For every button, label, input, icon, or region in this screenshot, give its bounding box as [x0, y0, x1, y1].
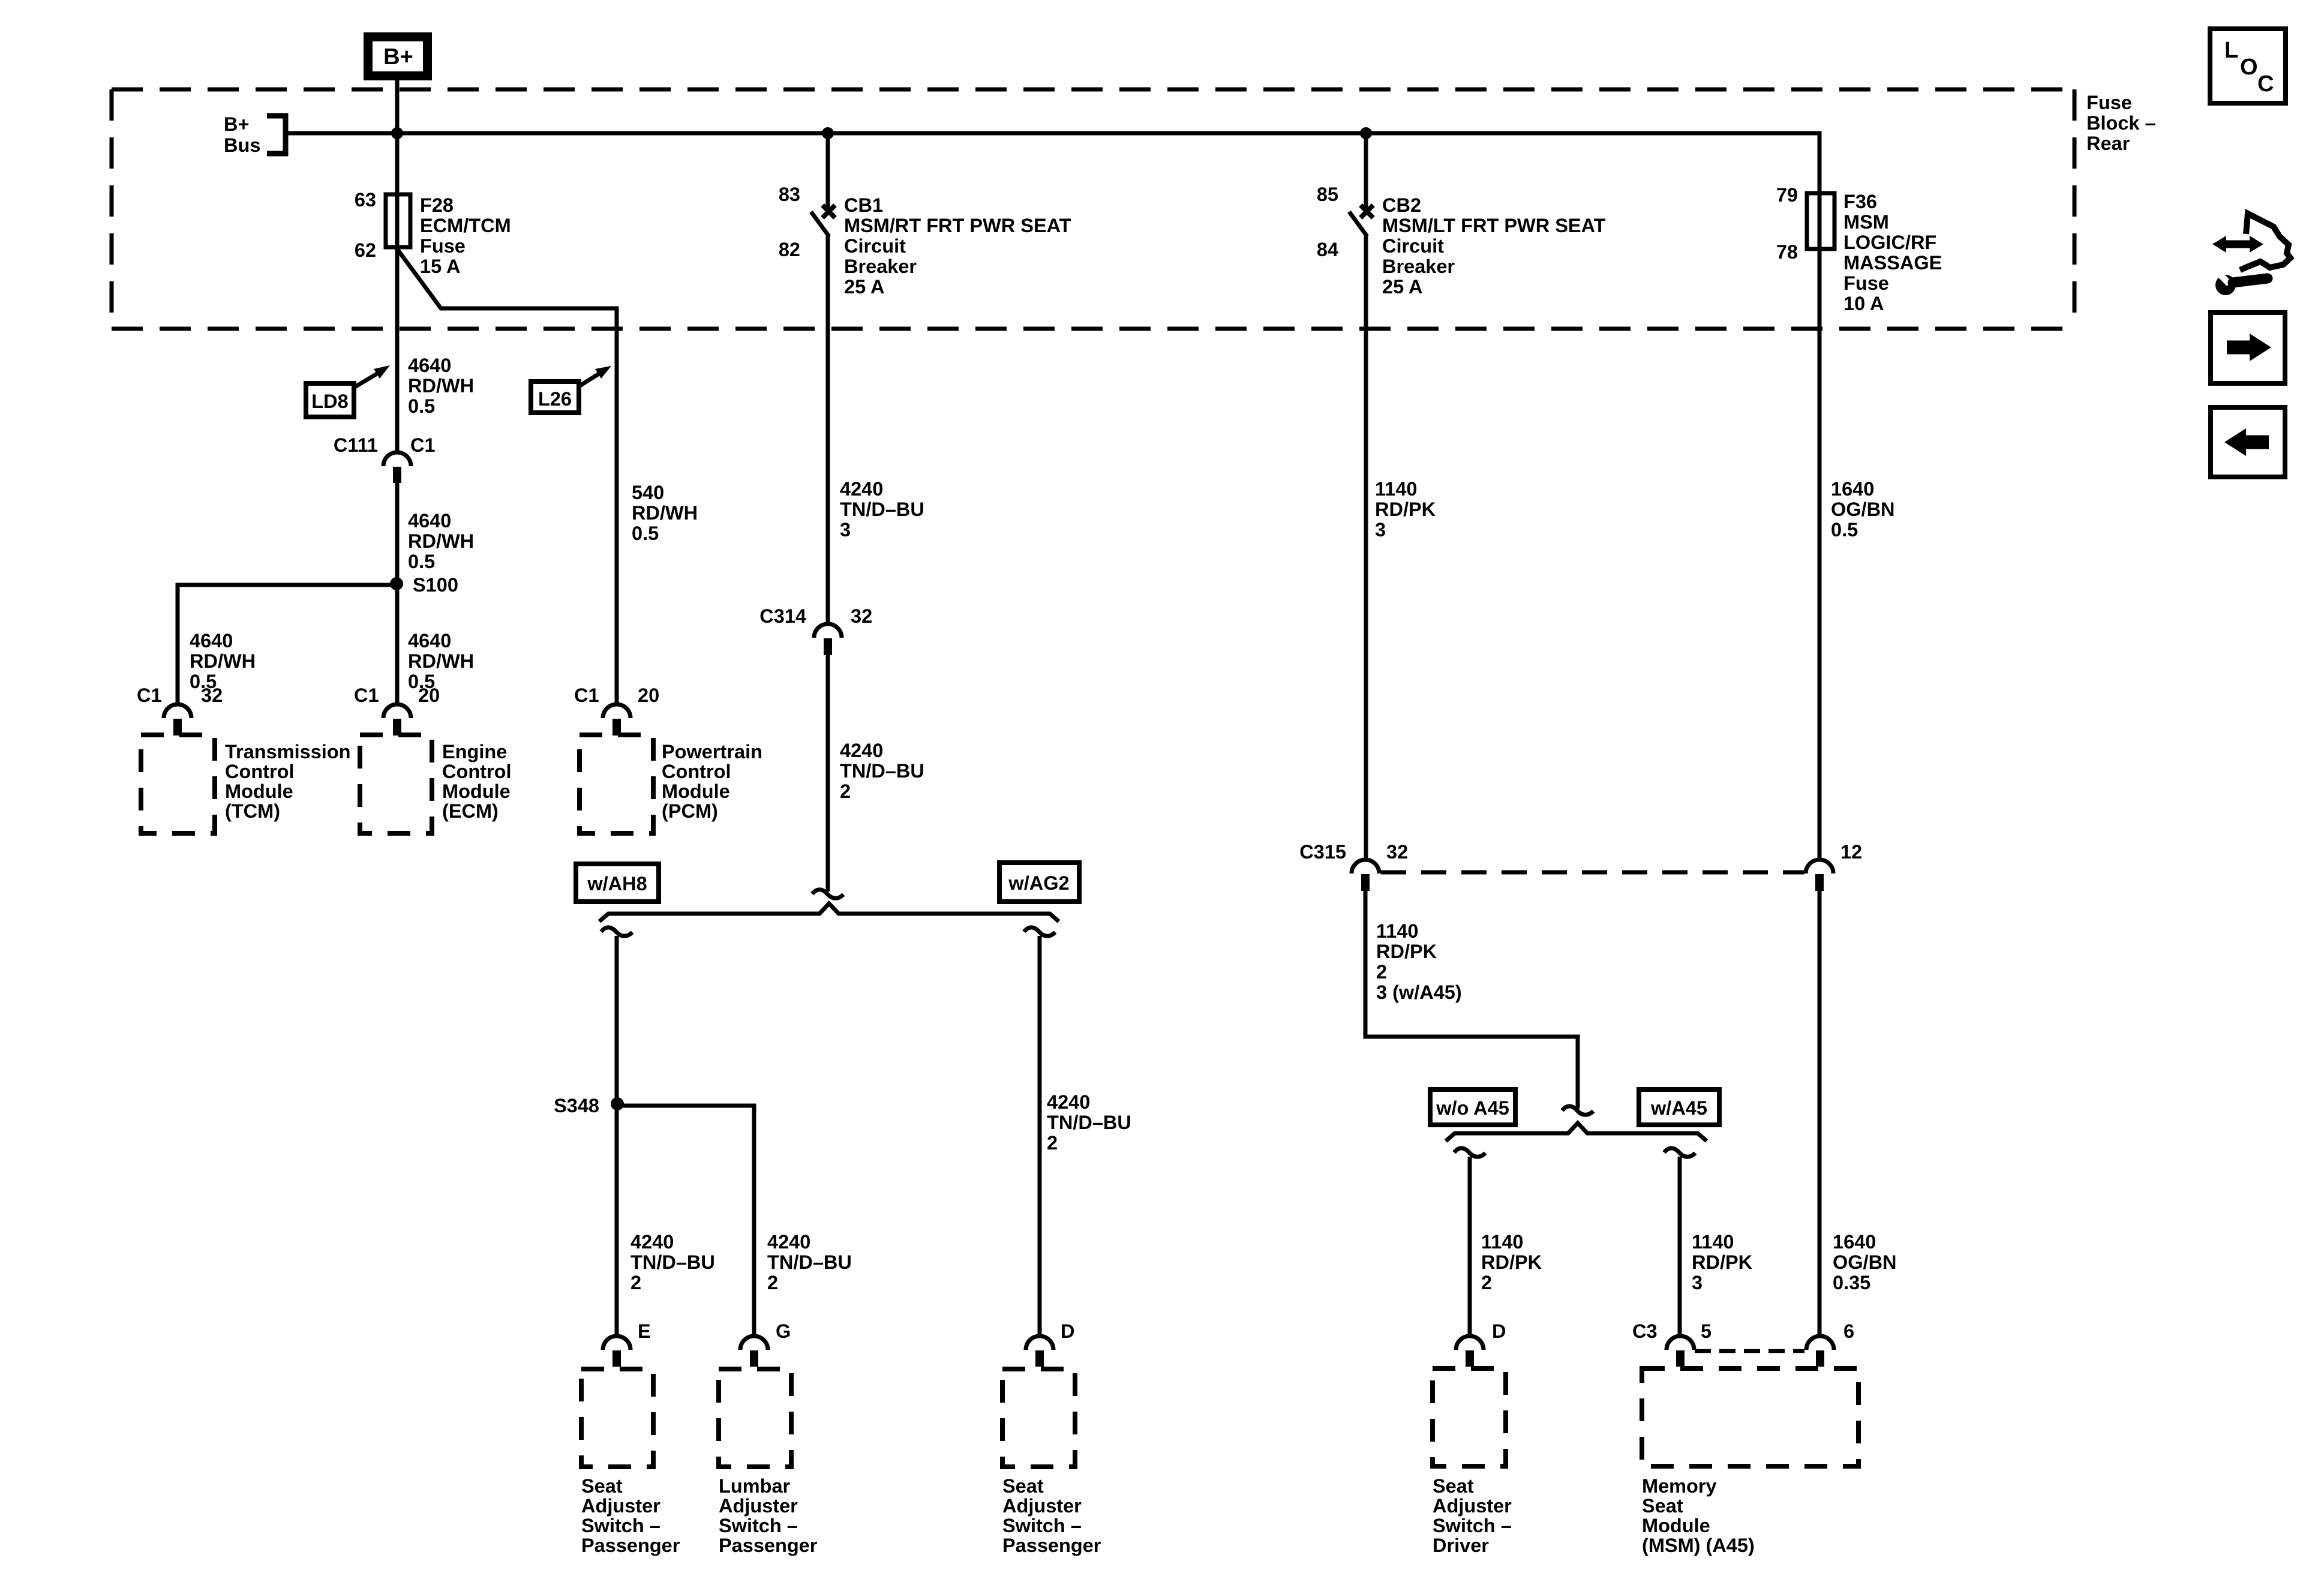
wire B+ bus	[286, 133, 1819, 193]
svg-text:MSM: MSM	[1843, 211, 1889, 233]
svg-text:2: 2	[767, 1272, 778, 1293]
svg-text:4240: 4240	[767, 1231, 810, 1253]
svg-text:Passenger: Passenger	[1002, 1535, 1101, 1556]
label Fuse Block - Rear	[2086, 92, 2156, 154]
svg-text:83: 83	[779, 184, 800, 205]
svg-text:Rear: Rear	[2086, 133, 2130, 154]
svg-text:20: 20	[418, 685, 440, 706]
svg-text:RD/WH: RD/WH	[632, 502, 698, 524]
svg-text:Seat: Seat	[1642, 1495, 1683, 1517]
wire label 4640 right	[408, 630, 474, 692]
svg-text:1140: 1140	[1692, 1231, 1734, 1253]
svg-text:1140: 1140	[1481, 1231, 1524, 1253]
w/AH8 option box	[576, 864, 659, 902]
split2 hook center	[1562, 1106, 1593, 1115]
svg-text:B+: B+	[224, 113, 249, 135]
svg-text:TN/D–BU: TN/D–BU	[840, 499, 924, 520]
connector C315 32	[1299, 841, 1408, 891]
dashed line between MSM pins	[1695, 1349, 1804, 1353]
memory seat module box	[1642, 1368, 1858, 1466]
svg-text:w/A45: w/A45	[1650, 1097, 1707, 1119]
left arrow box	[2211, 407, 2285, 477]
label 1140 RD/PK 3 msm	[1692, 1231, 1753, 1293]
svg-text:C111: C111	[334, 434, 378, 456]
svg-text:Circuit: Circuit	[844, 235, 906, 257]
label 540 RD/WH 0.5	[632, 482, 698, 544]
wire split to S348	[615, 936, 619, 1104]
svg-text:2: 2	[1481, 1272, 1492, 1293]
label 4240 bottom left	[630, 1231, 715, 1293]
svg-text:Control: Control	[225, 761, 295, 782]
svg-text:0.35: 0.35	[1833, 1272, 1870, 1293]
svg-text:C3: C3	[1632, 1320, 1658, 1342]
svg-text:w/AG2: w/AG2	[1008, 872, 1069, 894]
label Engine Control Module (ECM)	[442, 741, 512, 822]
svg-text:1640: 1640	[1833, 1231, 1876, 1253]
label Memory Seat Module (MSM) (A45)	[1642, 1475, 1755, 1556]
svg-text:S348: S348	[554, 1095, 599, 1116]
junction CB2	[1360, 127, 1372, 139]
wire S100 to ECM	[395, 584, 400, 704]
svg-text:3: 3	[1375, 519, 1386, 541]
svg-text:Switch –: Switch –	[1433, 1515, 1512, 1536]
label 4240 TN/D-BU 2	[840, 740, 924, 802]
svg-text:Module: Module	[442, 781, 511, 802]
svg-text:0.5: 0.5	[1831, 519, 1858, 541]
svg-text:MASSAGE: MASSAGE	[1843, 252, 1942, 274]
wire label 4640 left	[190, 630, 256, 692]
svg-text:4640: 4640	[190, 630, 233, 652]
svg-text:(MSM) (A45): (MSM) (A45)	[1642, 1535, 1755, 1556]
svg-text:O: O	[2240, 55, 2258, 80]
split2 line with caret	[1446, 1123, 1707, 1141]
label L26	[531, 366, 611, 413]
connector E	[603, 1320, 651, 1367]
svg-text:C1: C1	[410, 434, 436, 456]
svg-text:C1: C1	[574, 685, 599, 706]
svg-text:Adjuster: Adjuster	[1433, 1495, 1512, 1517]
svg-text:Engine: Engine	[442, 741, 507, 763]
svg-text:OG/BN: OG/BN	[1833, 1251, 1897, 1273]
wire C314 to split	[826, 655, 830, 891]
svg-text:Passenger: Passenger	[719, 1535, 818, 1556]
split2 hook left branch	[1454, 1148, 1485, 1157]
wire label 4640 RD/WH 0.5 mid	[408, 510, 474, 572]
svg-text:4240: 4240	[840, 478, 883, 500]
svg-text:5: 5	[1701, 1320, 1712, 1342]
svg-text:F36: F36	[1843, 191, 1877, 212]
svg-text:2: 2	[1047, 1132, 1058, 1154]
wire split2 to driver D	[1468, 1157, 1472, 1336]
w/AG2 option box	[999, 863, 1079, 902]
svg-text:25 A: 25 A	[844, 276, 884, 298]
junction CB1	[822, 127, 834, 139]
svg-text:B+: B+	[383, 44, 413, 70]
svg-text:32: 32	[201, 685, 223, 706]
svg-text:32: 32	[851, 605, 872, 627]
svg-text:Adjuster: Adjuster	[1002, 1495, 1082, 1517]
label Seat Adjuster Switch - Passenger 1	[581, 1475, 680, 1556]
svg-text:6: 6	[1843, 1320, 1854, 1342]
label F28 ECM/TCM Fuse 15 A	[420, 194, 511, 277]
svg-text:32: 32	[1386, 841, 1408, 863]
svg-text:Switch –: Switch –	[581, 1515, 660, 1536]
wire CB1 to C314	[826, 235, 830, 624]
connector C1 20 ECM	[354, 685, 440, 736]
svg-text:TN/D–BU: TN/D–BU	[840, 760, 924, 782]
svg-text:3 (w/A45): 3 (w/A45)	[1376, 981, 1462, 1003]
svg-text:F28: F28	[420, 194, 454, 216]
TCM box	[141, 735, 215, 833]
label 4240 TN/D-BU 3	[840, 478, 924, 541]
wire F28 to C111	[395, 247, 400, 452]
fuse F28	[386, 194, 410, 247]
svg-text:3: 3	[1692, 1272, 1703, 1293]
svg-text:4240: 4240	[1047, 1091, 1090, 1113]
wire CB2 to C315	[1364, 235, 1368, 860]
svg-text:12: 12	[1840, 841, 1862, 863]
label LD8	[306, 365, 390, 417]
label 4240 TN/D-BU 2 right	[1047, 1091, 1131, 1154]
label F36 MSM LOGIC/RF MASSAGE Fuse 10 A	[1843, 191, 1942, 314]
B+ bus bracket	[267, 116, 286, 154]
svg-text:(PCM): (PCM)	[662, 800, 718, 822]
svg-text:Passenger: Passenger	[581, 1535, 680, 1556]
seat adjuster switch driver box	[1433, 1368, 1506, 1466]
wire label 4640 RD/WH 0.5 upper	[408, 355, 474, 417]
svg-text:LOGIC/RF: LOGIC/RF	[1843, 232, 1936, 253]
wire S348 to E	[615, 1104, 619, 1336]
svg-text:82: 82	[779, 239, 800, 260]
svg-text:Control: Control	[442, 761, 512, 782]
svg-text:4240: 4240	[630, 1231, 674, 1253]
fuse block rear dashed box	[112, 89, 2074, 329]
svg-text:1140: 1140	[1376, 920, 1419, 942]
svg-text:Memory: Memory	[1642, 1475, 1717, 1497]
svg-text:ECM/TCM: ECM/TCM	[420, 215, 511, 236]
PCM box	[580, 735, 653, 833]
connector G	[740, 1320, 791, 1367]
svg-text:Transmission: Transmission	[225, 741, 351, 763]
connector 12	[1806, 841, 1862, 891]
svg-text:RD/PK: RD/PK	[1376, 941, 1437, 962]
svg-text:20: 20	[638, 685, 659, 706]
connector C1 20 PCM	[574, 685, 659, 736]
svg-text:Module: Module	[662, 781, 730, 802]
ECM box	[360, 735, 432, 833]
svg-text:4640: 4640	[408, 355, 451, 376]
split hook left branch	[601, 927, 632, 936]
svg-text:63: 63	[355, 189, 376, 211]
svg-text:78: 78	[1776, 241, 1798, 263]
svg-text:Breaker: Breaker	[844, 256, 917, 277]
svg-text:4240: 4240	[840, 740, 883, 761]
w/o A45 option box	[1430, 1089, 1515, 1125]
svg-text:TN/D–BU: TN/D–BU	[1047, 1112, 1131, 1133]
wire C315 to split2	[1365, 891, 1578, 1109]
wire S100 to TCM	[178, 585, 397, 704]
label B+ Bus	[224, 113, 260, 156]
label Lumbar Adjuster Switch - Passenger	[719, 1475, 818, 1556]
svg-text:Adjuster: Adjuster	[581, 1495, 660, 1517]
lumbar adjuster switch box	[719, 1369, 791, 1467]
svg-text:4640: 4640	[408, 510, 451, 532]
svg-text:Switch –: Switch –	[719, 1515, 798, 1536]
connector C314 32	[759, 605, 872, 655]
svg-text:0.5: 0.5	[408, 395, 435, 417]
wire C111 to S100	[395, 483, 400, 584]
svg-text:C315: C315	[1299, 841, 1346, 863]
service icon wrench with arrow	[2212, 214, 2290, 295]
svg-text:25 A: 25 A	[1382, 276, 1422, 298]
svg-text:3: 3	[840, 519, 851, 541]
svg-text:L: L	[2224, 38, 2238, 63]
wire F28 branch to PCM	[397, 249, 617, 704]
svg-text:C: C	[2257, 71, 2274, 97]
circuit breaker CB1	[811, 133, 835, 236]
splice S348	[554, 1095, 624, 1116]
splice S100	[390, 574, 458, 596]
svg-text:79: 79	[1776, 184, 1798, 206]
wire 12 to MSM 6	[1818, 891, 1822, 1336]
label Powertrain Control Module (PCM)	[662, 741, 762, 822]
svg-text:G: G	[776, 1320, 791, 1342]
svg-text:LD8: LD8	[311, 391, 348, 412]
svg-text:RD/PK: RD/PK	[1375, 499, 1436, 520]
svg-text:RD/PK: RD/PK	[1481, 1251, 1542, 1273]
svg-text:Breaker: Breaker	[1382, 256, 1455, 277]
label 1640 OG/BN 0.5	[1831, 478, 1895, 541]
circuit breaker CB2	[1349, 133, 1373, 236]
svg-text:RD/PK: RD/PK	[1692, 1251, 1753, 1273]
label CB2 MSM/LT FRT PWR SEAT Circuit Breaker 25 A	[1382, 194, 1606, 298]
svg-text:D: D	[1492, 1320, 1506, 1342]
svg-text:C1: C1	[137, 685, 162, 706]
svg-text:Module: Module	[225, 781, 293, 802]
svg-text:Fuse: Fuse	[2086, 92, 2132, 113]
svg-text:TN/D–BU: TN/D–BU	[630, 1251, 715, 1273]
split line with caret	[599, 903, 1059, 921]
svg-text:1640: 1640	[1831, 478, 1874, 500]
dashed connector line C315 to 12	[1381, 870, 1804, 875]
seat adjuster switch passenger box 2	[1002, 1369, 1075, 1467]
svg-text:85: 85	[1317, 184, 1338, 205]
svg-text:2: 2	[630, 1272, 641, 1293]
svg-text:L26: L26	[538, 388, 572, 410]
svg-text:RD/WH: RD/WH	[408, 530, 474, 552]
svg-text:2: 2	[840, 781, 851, 802]
right arrow box	[2211, 313, 2285, 383]
wire split right branch to D	[1038, 936, 1042, 1336]
svg-text:MSM/LT FRT PWR SEAT: MSM/LT FRT PWR SEAT	[1382, 215, 1606, 236]
svg-text:62: 62	[355, 239, 376, 261]
split hook right branch	[1024, 927, 1055, 936]
svg-text:Driver: Driver	[1433, 1535, 1489, 1556]
label 1140 RD/PK 3	[1375, 478, 1436, 541]
label 1640 OG/BN 0.35	[1833, 1231, 1897, 1293]
svg-text:Adjuster: Adjuster	[719, 1495, 798, 1517]
svg-text:CB1: CB1	[844, 194, 883, 216]
svg-text:4640: 4640	[408, 630, 451, 652]
svg-text:84: 84	[1317, 239, 1338, 260]
svg-text:RD/WH: RD/WH	[190, 650, 256, 672]
connector C1 32 TCM	[137, 685, 223, 736]
svg-text:Seat: Seat	[1433, 1475, 1474, 1497]
svg-text:C314: C314	[759, 605, 806, 627]
svg-text:w/AH8: w/AH8	[587, 873, 647, 894]
svg-text:OG/BN: OG/BN	[1831, 499, 1895, 520]
svg-text:D: D	[1061, 1320, 1074, 1342]
svg-text:0.5: 0.5	[632, 523, 659, 544]
svg-text:TN/D–BU: TN/D–BU	[767, 1251, 852, 1273]
svg-text:Fuse: Fuse	[1843, 272, 1889, 294]
LOC legend box	[2210, 29, 2286, 103]
svg-text:Module: Module	[1642, 1515, 1710, 1536]
wire split2 to MSM 5	[1678, 1157, 1682, 1336]
svg-text:10 A: 10 A	[1843, 293, 1884, 314]
svg-text:1140: 1140	[1375, 478, 1418, 500]
label Seat Adjuster Switch - Passenger 2	[1002, 1475, 1101, 1556]
svg-text:Seat: Seat	[581, 1475, 623, 1497]
label Seat Adjuster Switch - Driver	[1433, 1475, 1512, 1556]
svg-text:2: 2	[1376, 961, 1387, 983]
svg-text:Bus: Bus	[224, 134, 260, 156]
junction B+/F28	[391, 127, 403, 139]
split symbol hook center	[812, 890, 843, 898]
svg-text:Circuit: Circuit	[1382, 235, 1444, 257]
svg-text:RD/WH: RD/WH	[408, 375, 474, 397]
svg-text:Fuse: Fuse	[420, 235, 466, 257]
connector D passenger	[1026, 1320, 1074, 1367]
connector C3 5	[1632, 1320, 1712, 1367]
svg-text:(ECM): (ECM)	[442, 800, 499, 822]
label 1140 RD/PK 2 3 (w/A45)	[1376, 920, 1462, 1003]
svg-text:S100: S100	[413, 574, 458, 596]
svg-text:Powertrain: Powertrain	[662, 741, 762, 763]
connector D driver	[1456, 1320, 1506, 1367]
connector C111 C1	[334, 434, 436, 483]
svg-text:(TCM): (TCM)	[225, 800, 280, 822]
svg-text:Seat: Seat	[1002, 1475, 1044, 1497]
svg-text:15 A: 15 A	[420, 256, 460, 277]
svg-text:Lumbar: Lumbar	[719, 1475, 791, 1497]
svg-text:Switch –: Switch –	[1002, 1515, 1082, 1536]
label Transmission Control Module (TCM)	[225, 741, 351, 822]
wire F36 to connector 12	[1818, 249, 1822, 860]
split2 hook right branch	[1664, 1148, 1695, 1157]
svg-text:w/o A45: w/o A45	[1436, 1097, 1509, 1119]
fuse F36	[1807, 193, 1834, 249]
svg-text:540: 540	[632, 482, 664, 503]
label 1140 RD/PK 2 driver	[1481, 1231, 1542, 1293]
svg-text:MSM/RT FRT PWR SEAT: MSM/RT FRT PWR SEAT	[844, 215, 1071, 236]
wire S348 branch to G	[617, 1106, 754, 1336]
svg-text:E: E	[638, 1320, 651, 1342]
svg-text:Control: Control	[662, 761, 731, 782]
svg-text:CB2: CB2	[1382, 194, 1421, 216]
label CB1 MSM/RT FRT PWR SEAT Circuit Breaker 25 A	[844, 194, 1071, 298]
w/A45 option box	[1639, 1089, 1719, 1125]
svg-text:C1: C1	[354, 685, 379, 706]
svg-text:0.5: 0.5	[408, 551, 435, 572]
seat adjuster switch passenger box 1	[581, 1369, 653, 1467]
wire B+ to fuse F28	[395, 80, 400, 249]
label 4240 bottom mid	[767, 1231, 852, 1293]
B+ power symbol	[368, 37, 428, 76]
connector 6	[1806, 1320, 1854, 1367]
svg-text:Block –: Block –	[2086, 112, 2156, 134]
svg-text:RD/WH: RD/WH	[408, 650, 474, 672]
